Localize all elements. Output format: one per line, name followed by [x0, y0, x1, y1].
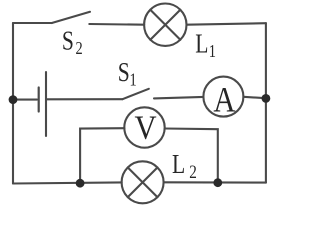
svg-text:V: V: [134, 108, 156, 146]
svg-text:L: L: [172, 150, 185, 180]
svg-text:2: 2: [189, 161, 197, 182]
label L1: [195, 29, 216, 61]
label S1: [118, 58, 137, 90]
wire L1 to top-right corner: [187, 23, 266, 25]
wire left vertical: [12, 23, 14, 184]
voltmeter U2: [124, 107, 164, 147]
wire right vertical: [265, 23, 267, 182]
svg-text:A: A: [213, 80, 235, 120]
wire S1 to ammeter: [154, 97, 203, 99]
label L2: [172, 150, 197, 183]
wire bottom-left segment: [13, 182, 122, 183]
svg-text:1: 1: [130, 69, 137, 90]
node voltmeter-left junction: [76, 179, 85, 188]
wire bottom-right segment: [164, 181, 266, 183]
battery cell: [39, 72, 46, 136]
wire top-left segment: [13, 22, 52, 24]
ammeter U1: [203, 77, 243, 117]
wire voltmeter right drop: [165, 129, 218, 183]
svg-text:1: 1: [209, 40, 216, 61]
node voltmeter-right junction: [213, 178, 222, 187]
svg-text:S: S: [62, 26, 74, 56]
wire voltmeter left drop: [80, 128, 124, 183]
label S2: [62, 26, 83, 58]
svg-text:2: 2: [76, 38, 83, 59]
switch S2: [52, 12, 90, 23]
wire S2 to L1: [89, 23, 144, 26]
switch S1: [123, 89, 149, 99]
wire battery to S1: [46, 98, 123, 100]
lamp L1: [144, 4, 186, 46]
node battery-left junction: [9, 95, 18, 104]
node ammeter-right junction: [262, 94, 271, 103]
lamp L2: [122, 161, 164, 203]
svg-text:L: L: [195, 29, 208, 59]
wire ammeter to right vertical: [243, 97, 266, 98]
svg-text:S: S: [118, 58, 130, 88]
wire battery branch left: [13, 99, 37, 101]
